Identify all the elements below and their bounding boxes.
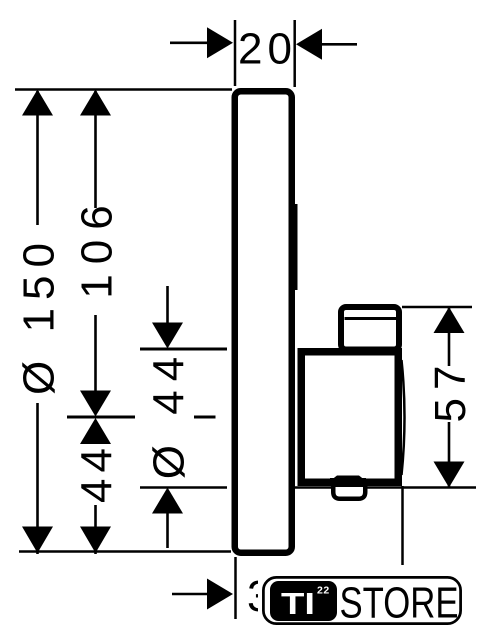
svg-text:106: 106 — [73, 195, 122, 298]
svg-text:57: 57 — [426, 358, 475, 423]
svg-text:22: 22 — [317, 585, 330, 597]
svg-text:STORE: STORE — [340, 579, 459, 628]
svg-text:TI: TI — [281, 587, 315, 621]
svg-text:44: 44 — [73, 442, 122, 503]
svg-text:Ø 44: Ø 44 — [145, 348, 194, 479]
svg-text:20: 20 — [238, 25, 297, 74]
svg-text:Ø 150: Ø 150 — [15, 235, 64, 395]
